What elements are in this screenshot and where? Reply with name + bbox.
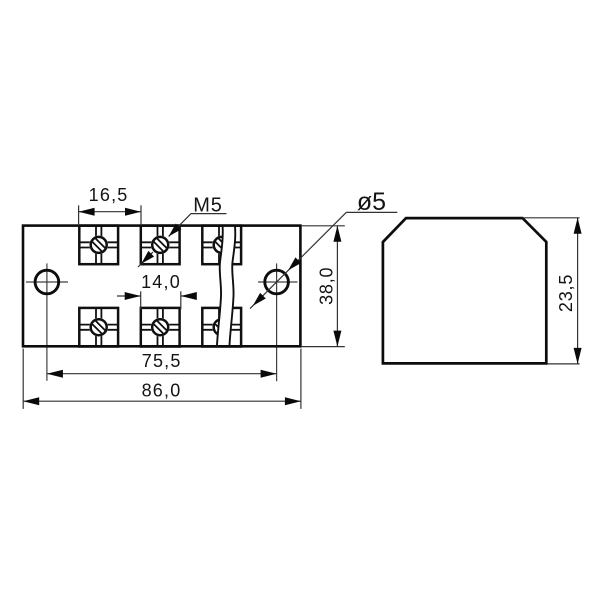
- terminal screw cage A1 (top row col 1): [79, 226, 118, 265]
- dimension 38,0 arrow top: [333, 226, 341, 242]
- leader diameter5 arrow upper: [288, 257, 301, 270]
- leader M5 arrow upper: [169, 224, 182, 237]
- dimension 14,0 extension line left: [140, 291, 142, 309]
- dimension 16,5 arrow left: [79, 208, 95, 216]
- centerline right hole horizontal: [258, 281, 298, 283]
- leader M5 arrow lower: [141, 251, 154, 264]
- leader M5 underline: [191, 213, 227, 215]
- svg-text:75,5: 75,5: [142, 351, 182, 371]
- dimension 75,5 line: [47, 373, 277, 375]
- dimension 38,0 extension line top: [302, 225, 345, 227]
- dimension 86,0 arrow right: [285, 397, 301, 405]
- svg-text:14,0: 14,0: [141, 272, 181, 292]
- dimension 86,0 extension line left: [22, 349, 24, 409]
- leader M5 upper segment: [169, 214, 191, 237]
- dimension 16,5 arrow right: [125, 208, 141, 216]
- leader diameter5 diagonal line: [250, 212, 346, 308]
- dimension 75,5 arrow right: [261, 370, 277, 378]
- dimension 38,0 line: [336, 226, 338, 347]
- dimension 14,0 arrow right (pointing left): [181, 292, 197, 300]
- break band white fill: [217, 225, 235, 348]
- dimension 86,0 line: [23, 400, 301, 402]
- dimension 38,0 extension line bottom: [302, 346, 345, 348]
- dimension 23,5 arrow top: [574, 218, 582, 234]
- terminal screw cage A2 (top row col 2): [141, 226, 180, 265]
- break line left: [217, 225, 223, 348]
- dimension 16,5 line: [79, 211, 141, 213]
- dimension 14,0 tail left: [117, 295, 141, 297]
- dimension 86,0 extension line right: [300, 349, 302, 409]
- side view outline (chamfered block): [383, 218, 546, 363]
- dimension 16,5 extension line left: [78, 205, 80, 225]
- dimension 14,0 extension line right: [180, 291, 182, 309]
- mounting hole right: [265, 270, 289, 294]
- dimension 23,5 line: [577, 218, 579, 364]
- svg-text:23,5: 23,5: [556, 274, 576, 312]
- svg-text:86,0: 86,0: [142, 381, 182, 401]
- terminal screw cage B3 (bottom row col 3, broken): [202, 308, 241, 347]
- leader M5 lower segment: [138, 252, 153, 267]
- dimension 38,0 arrow bottom: [333, 331, 341, 347]
- dimension 16,5 extension line right: [140, 205, 142, 225]
- dimension 23,5 extension line bottom: [548, 363, 580, 365]
- centerline left hole vertical (extension to 75,5): [46, 263, 48, 380]
- dimension 23,5 extension line top: [523, 217, 580, 219]
- terminal screw cage B1 (bottom row col 1): [79, 308, 118, 347]
- dimension 86,0 arrow left: [23, 397, 39, 405]
- break line right: [229, 225, 235, 348]
- terminal screw cage A3 (top row col 3, broken): [202, 226, 241, 265]
- dimension 75,5 arrow left: [47, 370, 63, 378]
- leader diameter5 arrow lower: [253, 293, 266, 306]
- terminal screw cage B2 (bottom row col 2): [141, 308, 180, 347]
- centerline right hole vertical (extension to 75,5): [276, 263, 278, 381]
- dimension 14,0 arrow left (pointing right): [125, 292, 141, 300]
- dimension 14,0 tail right: [181, 295, 197, 297]
- centerline left hole horizontal: [26, 281, 68, 283]
- mounting hole left: [35, 270, 59, 294]
- dimension 23,5 arrow bottom: [574, 348, 582, 364]
- svg-text:38,0: 38,0: [317, 267, 337, 305]
- body outline front view: [23, 226, 300, 347]
- leader diameter5 underline: [346, 211, 397, 213]
- svg-text:16,5: 16,5: [89, 185, 129, 205]
